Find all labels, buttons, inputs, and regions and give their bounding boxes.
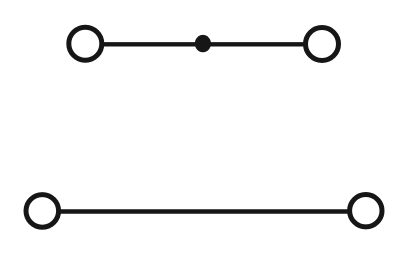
node (junction dot on upper wire) [195,35,211,52]
wire (lower level, between left and right terminals) [59,209,349,213]
terminal circle upper-left [69,27,102,60]
wire (upper level, between left and right terminals) [102,42,305,46]
terminal circle upper-right [306,28,339,61]
terminal circle lower-left [26,195,59,228]
terminal circle lower-right [350,195,382,227]
